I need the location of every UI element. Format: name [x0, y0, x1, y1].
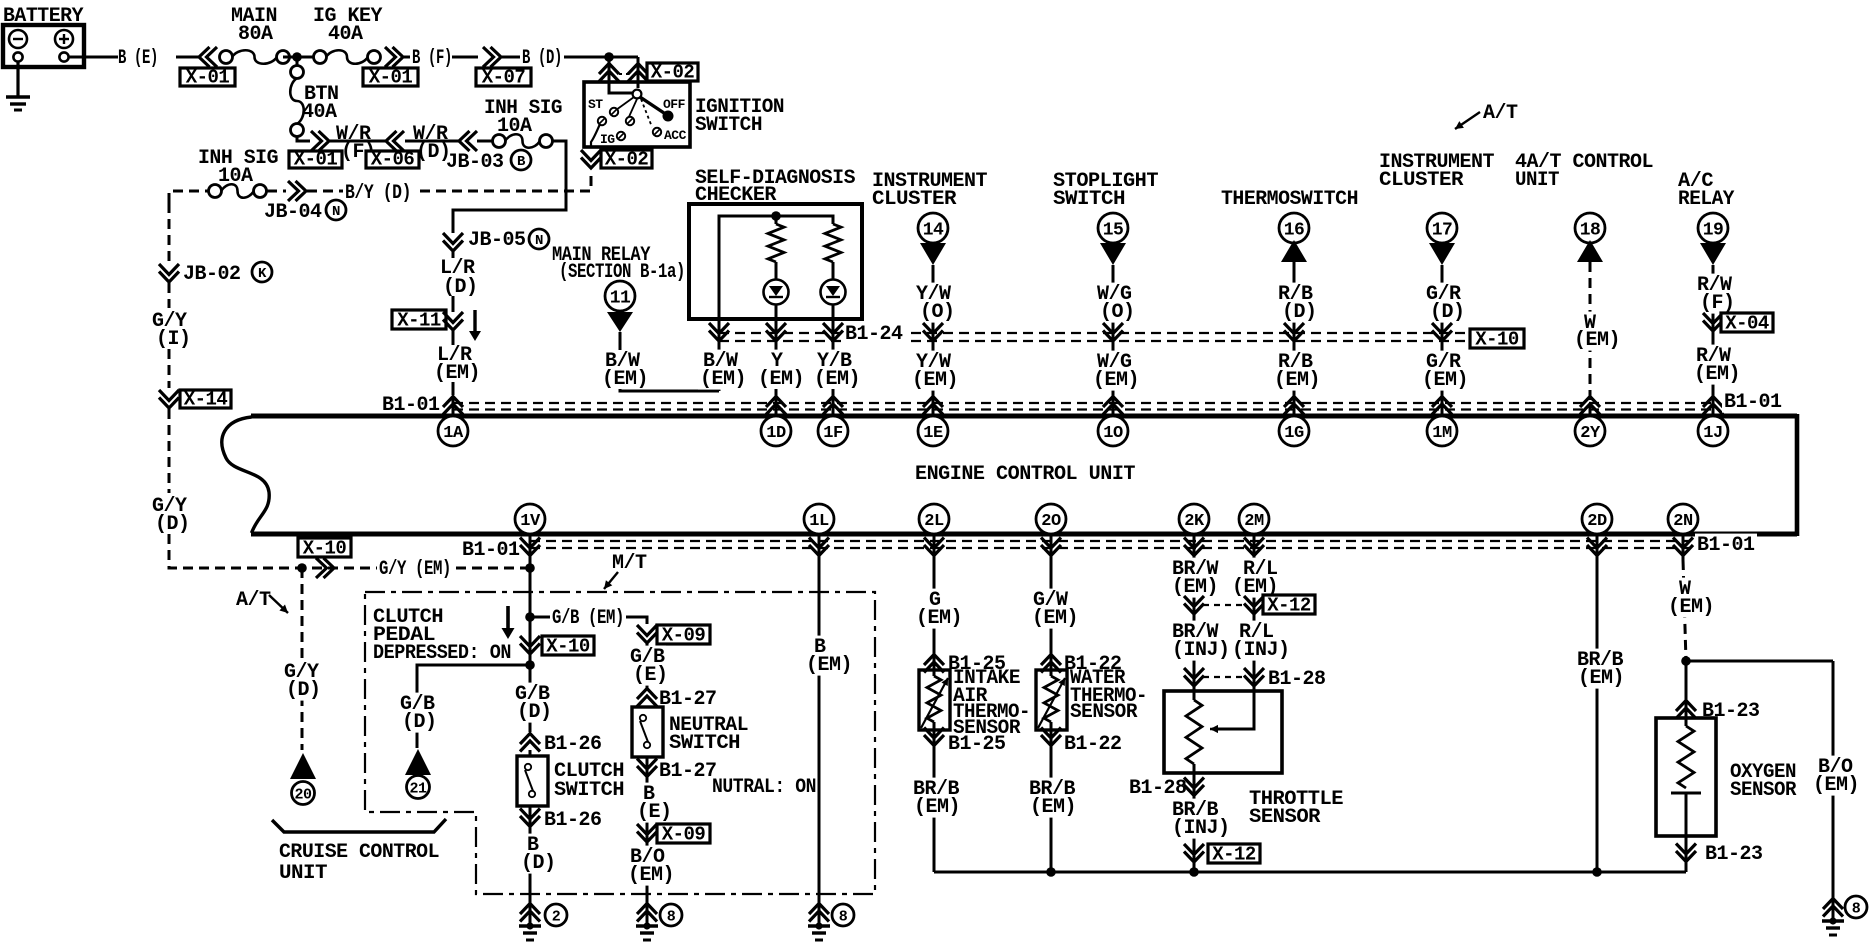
- label THROTTLE SENSOR: [1249, 788, 1344, 829]
- svg-text:(EM): (EM): [1172, 576, 1218, 599]
- M/T region box: [365, 592, 875, 894]
- label G/B (EM): [550, 607, 626, 629]
- label BR/B (EM) 2O: [1027, 778, 1077, 800]
- neutral switch: [632, 707, 663, 757]
- wire 1L down: [818, 536, 821, 905]
- label BR/B (EM) 2L: [911, 778, 961, 800]
- svg-text:THERMOSWITCH: THERMOSWITCH: [1221, 188, 1358, 211]
- ignition contact ACC: [653, 128, 661, 136]
- svg-text:(EM): (EM): [1093, 369, 1139, 392]
- svg-text:(D): (D): [155, 513, 190, 536]
- wire relay to junction: [620, 389, 719, 391]
- wire junction into switch: [609, 57, 633, 93]
- label B/W (EM) checker: [701, 350, 739, 372]
- wire to ECU pin 1A: [452, 382, 455, 395]
- svg-text:1F: 1F: [823, 424, 843, 443]
- wire BTN fuse to W/R row: [297, 136, 310, 141]
- svg-text:B1-26: B1-26: [544, 733, 602, 756]
- label INTAKE AIR THERMO-SENSOR: [953, 667, 1030, 740]
- pin 1J: [1698, 416, 1728, 446]
- terminal N circled: [326, 200, 346, 220]
- svg-text:(EM): (EM): [1574, 329, 1620, 352]
- wire checker internal top: [719, 216, 833, 319]
- wire battery positive feed: [68, 56, 118, 59]
- wire 19 down: [1712, 265, 1715, 414]
- label G/R (D): [1424, 283, 1462, 305]
- connector chevron B1-27 bottom: [637, 759, 657, 777]
- wire 17 down: [1441, 265, 1444, 414]
- svg-text:(EM): (EM): [628, 864, 674, 887]
- label G/B (D) 21: [398, 693, 436, 715]
- svg-text:(EM): (EM): [1030, 796, 1076, 819]
- svg-text:JB-05: JB-05: [468, 229, 526, 252]
- label G (EM): [927, 589, 943, 611]
- svg-text:G/B (EM): G/B (EM): [552, 607, 624, 630]
- label Y (EM): [769, 350, 785, 372]
- svg-text:X-14: X-14: [184, 389, 228, 411]
- connector chevron B1-24 Y/B: [823, 323, 843, 341]
- wire second into switch: [637, 57, 640, 88]
- label A/T upper with arrow: [1455, 102, 1518, 129]
- label R/W (EM): [1694, 345, 1732, 367]
- svg-text:2N: 2N: [1673, 512, 1693, 531]
- connector chevron B1-01 2Y: [1580, 397, 1600, 415]
- svg-text:B1-25: B1-25: [948, 733, 1006, 756]
- junction node 2D bus: [1592, 867, 1602, 877]
- connector box X-12 top: [1263, 595, 1315, 614]
- connector box X-11: [392, 310, 446, 329]
- svg-text:(EM): (EM): [1694, 363, 1740, 386]
- pin 1L: [804, 504, 834, 534]
- ground battery: [6, 97, 30, 110]
- wire 2N dashed down: [1682, 536, 1685, 560]
- arrow main relay: [607, 312, 633, 332]
- connector chevron X-09 bottom: [637, 824, 657, 842]
- wire sensor ground bus: [934, 871, 1686, 874]
- svg-text:8: 8: [839, 908, 848, 925]
- svg-text:(D): (D): [402, 711, 437, 734]
- arrow 17: [1429, 243, 1455, 265]
- thermistor intake: [927, 676, 941, 722]
- thermistor arrow water: [1038, 678, 1065, 728]
- connector chevron B1-01 1V: [520, 538, 540, 556]
- svg-text:17: 17: [1432, 220, 1453, 240]
- wire 2D down: [1596, 536, 1599, 872]
- label B1-01 bottom right: [1695, 534, 1757, 556]
- pin 1V: [515, 504, 545, 534]
- svg-text:K: K: [258, 266, 267, 282]
- connector chevron X-09 top: [637, 625, 657, 643]
- arrow 15: [1100, 243, 1126, 265]
- fuse MAIN 80A: [220, 51, 233, 64]
- svg-text:2O: 2O: [1041, 512, 1061, 531]
- connector chevron B1-23 bottom: [1676, 844, 1696, 862]
- svg-text:X-11: X-11: [397, 310, 441, 332]
- svg-text:X-01: X-01: [369, 67, 413, 89]
- wire 2L below sensor: [933, 722, 936, 872]
- svg-text:NUTRAL: ON: NUTRAL: ON: [712, 776, 816, 799]
- svg-text:(EM): (EM): [806, 654, 852, 677]
- connector chevron B1-01 1G: [1284, 397, 1304, 415]
- wire G/B (EM) to X-09: [530, 617, 647, 624]
- connector box X-02 top: [647, 63, 698, 81]
- label W (EM) 18: [1582, 312, 1598, 334]
- node 16 thermoswitch: [1279, 213, 1309, 243]
- svg-text:UNIT: UNIT: [279, 862, 328, 885]
- svg-text:X-10: X-10: [546, 636, 590, 658]
- svg-text:(D): (D): [286, 679, 321, 702]
- pin 2D: [1582, 504, 1612, 534]
- connector chevron B1-01 1E: [923, 397, 943, 415]
- svg-text:ENGINE CONTROL UNIT: ENGINE CONTROL UNIT: [915, 463, 1135, 486]
- label CRUISE CONTROL UNIT: [279, 841, 439, 885]
- svg-text:B1-26: B1-26: [544, 809, 602, 832]
- svg-text:(EM): (EM): [1813, 774, 1859, 797]
- svg-text:X-06: X-06: [371, 149, 415, 171]
- connector chevron B1-01 1D: [766, 397, 786, 415]
- wire MAIN fuse to junction: [283, 56, 318, 59]
- node 15 stoplight switch: [1098, 213, 1128, 243]
- label R/L (EM): [1241, 558, 1279, 580]
- svg-text:1O: 1O: [1103, 424, 1123, 443]
- label G/Y (EM): [377, 558, 453, 580]
- svg-text:JB-03: JB-03: [446, 151, 504, 174]
- label BR/B (EM) 2D: [1575, 649, 1625, 671]
- label BR/B (INJ): [1170, 799, 1220, 821]
- ignition switch rotor: [633, 90, 674, 122]
- svg-text:1L: 1L: [809, 512, 829, 531]
- svg-text:X-12: X-12: [1212, 844, 1256, 866]
- cell oxygen sensor: [1671, 793, 1701, 836]
- wire 15 down: [1112, 265, 1115, 414]
- svg-text:B (F): B (F): [412, 47, 452, 70]
- wire below X-11: [452, 331, 455, 345]
- wire dashed G/Y (EM): [296, 567, 530, 570]
- connector chevron B1-24 17: [1432, 323, 1452, 341]
- label Y/W (EM): [914, 351, 952, 373]
- svg-text:1J: 1J: [1703, 424, 1722, 443]
- resistor oxygen: [1678, 726, 1694, 788]
- label R/L (INJ): [1237, 621, 1275, 643]
- wire 16 down: [1293, 262, 1296, 414]
- label Y/W (O): [914, 283, 952, 305]
- clutch switch CLUTCH: [517, 756, 548, 806]
- pin 2K: [1179, 504, 1209, 534]
- connector chevron X-04: [1703, 313, 1723, 331]
- connector chevron B1-24 16: [1284, 323, 1304, 341]
- fuse BTN 40A: [291, 66, 304, 79]
- wire JB-05 to label: [452, 251, 455, 258]
- connector box X-06: [366, 151, 419, 168]
- potentiometer throttle: [1186, 700, 1202, 764]
- label R/B (D): [1276, 283, 1314, 305]
- thermistor water: [1044, 676, 1058, 722]
- pin 2Y: [1575, 416, 1605, 446]
- svg-text:8: 8: [667, 908, 676, 925]
- svg-text:B1-28: B1-28: [1268, 668, 1326, 691]
- pin 2L: [919, 504, 949, 534]
- pin 1M: [1427, 416, 1457, 446]
- svg-text:X-01: X-01: [294, 149, 338, 171]
- connector chevron X-11: [443, 312, 463, 330]
- svg-text:JB-04: JB-04: [264, 201, 322, 224]
- svg-text:A/T: A/T: [1483, 102, 1518, 125]
- ignition contact ST upper: [610, 108, 618, 116]
- wire resistor to LED left: [775, 262, 778, 280]
- wire 2M into throttle: [1212, 691, 1254, 729]
- connector box X-04: [1721, 313, 1773, 332]
- svg-text:X-01: X-01: [186, 67, 230, 89]
- wire junction down to BTN fuse: [296, 57, 299, 66]
- svg-text:(O): (O): [920, 301, 955, 324]
- connector chevron X-06: [386, 131, 404, 151]
- ground id 2: [545, 904, 567, 926]
- svg-text:A/T: A/T: [236, 589, 271, 612]
- svg-text:(EM): (EM): [914, 796, 960, 819]
- label Y/B (EM): [815, 350, 853, 372]
- connector chevron B1-23 top: [1676, 701, 1696, 719]
- arrow 19: [1700, 243, 1726, 265]
- connector chevron X-12 2K: [1184, 596, 1204, 614]
- pin 2O: [1036, 504, 1066, 534]
- connector chevron X-02 wire2: [628, 64, 648, 82]
- wire 14 down: [932, 265, 935, 414]
- svg-text:2: 2: [552, 908, 561, 925]
- connector chevron X-10 clutch: [520, 636, 540, 654]
- pin 2N: [1668, 504, 1698, 534]
- svg-text:19: 19: [1703, 220, 1724, 240]
- connector box X-01 second: [363, 68, 418, 86]
- connector chevron B1-26 top: [520, 734, 540, 752]
- svg-text:B/Y (D): B/Y (D): [345, 182, 411, 205]
- svg-text:IG: IG: [600, 132, 615, 147]
- svg-text:ACC: ACC: [664, 128, 687, 143]
- label G/R (EM): [1424, 351, 1462, 373]
- wire 2L down: [933, 536, 936, 676]
- fuse INH SIG 10A lower: [209, 185, 222, 198]
- label R/W (F): [1695, 274, 1733, 296]
- arrow small down at X-11: [473, 310, 476, 331]
- label G/B (D) clutch: [513, 683, 551, 705]
- ground B/O: [1823, 899, 1843, 917]
- connector box X-10 left: [298, 538, 351, 557]
- svg-text:(EM): (EM): [434, 362, 480, 385]
- svg-text:SENSOR: SENSOR: [1070, 701, 1137, 724]
- node 19 A/C relay: [1698, 213, 1728, 243]
- wire dashed JB-02 column upper: [168, 203, 171, 262]
- pin 1A: [438, 416, 468, 446]
- label CLUTCH PEDAL DEPRESSED: ON: [373, 606, 511, 665]
- connector chevron B1-01 2M: [1244, 538, 1264, 556]
- arrow 21 up: [405, 749, 431, 775]
- svg-text:X-09: X-09: [662, 824, 706, 846]
- svg-text:X-09: X-09: [662, 625, 706, 647]
- connector chevron JB-05: [443, 233, 463, 251]
- label B1-01 top right: [1722, 391, 1784, 413]
- arrow 16 up: [1281, 240, 1307, 262]
- connector chevron B1-24 14: [923, 323, 943, 341]
- junction node oxygen: [1681, 656, 1691, 666]
- wire 2O down: [1050, 536, 1053, 676]
- resistor checker left: [768, 224, 784, 262]
- wire B (F) to X-07: [452, 56, 478, 59]
- connector chevron B1-24 Y: [766, 323, 786, 341]
- label B1-24: [843, 323, 905, 345]
- connector box X-01: [180, 68, 235, 86]
- svg-text:21: 21: [409, 780, 427, 797]
- connector chevron B1-01 2K: [1184, 538, 1204, 556]
- label B (E): [641, 783, 657, 805]
- pin 1O: [1098, 416, 1128, 446]
- fuse IG KEY 40A: [314, 51, 327, 64]
- bus B1-24 dashed pair: [719, 333, 1470, 341]
- wire W/R segment: [330, 140, 386, 143]
- svg-text:2M: 2M: [1244, 512, 1264, 531]
- label B/O (EM): [1816, 756, 1854, 778]
- svg-text:SWITCH: SWITCH: [669, 732, 740, 755]
- svg-text:DEPRESSED: ON: DEPRESSED: ON: [373, 642, 511, 665]
- label G/Y (D) 20: [282, 661, 320, 683]
- self-diagnosis checker box: [689, 204, 862, 319]
- wire INH SIG to JB-05 corner: [453, 141, 566, 233]
- connector chevron X-01 left: [199, 47, 217, 67]
- wire dashed below JB-02: [168, 283, 171, 308]
- connector chevron B1-01 1L: [809, 538, 829, 556]
- node 18 4A/T control unit: [1575, 213, 1605, 243]
- svg-text:X-10: X-10: [303, 538, 347, 560]
- wire to X-11: [452, 296, 455, 312]
- svg-text:B1-22: B1-22: [1064, 733, 1122, 756]
- arrow 20 up: [290, 753, 316, 779]
- wire oxygen to B/O column: [1686, 660, 1833, 663]
- pin 1F: [818, 416, 848, 446]
- ground clutch switch: [520, 904, 540, 922]
- svg-text:N: N: [332, 204, 340, 220]
- svg-text:(EM): (EM): [916, 607, 962, 630]
- label G/B (E): [628, 646, 666, 668]
- junction node 1V G/Y: [525, 563, 535, 573]
- ground neutral switch: [637, 904, 657, 922]
- label WATER THERMO-SENSOR: [1070, 667, 1147, 724]
- terminal N circled second: [529, 229, 549, 249]
- svg-text:1M: 1M: [1432, 424, 1452, 443]
- wire dashed A/T branch: [301, 568, 304, 750]
- wire dashed B/Y (D): [307, 190, 343, 193]
- svg-text:B1-28: B1-28: [1129, 777, 1187, 800]
- svg-text:B1-01: B1-01: [1724, 391, 1782, 414]
- resistor checker right: [825, 224, 841, 262]
- svg-text:OFF: OFF: [663, 97, 686, 112]
- junction node G/B (EM): [525, 612, 535, 622]
- connector chevron X-01 right: [385, 47, 403, 67]
- wire ST contact exit: [591, 124, 600, 147]
- connector chevron B1-01 1M: [1432, 397, 1452, 415]
- connector chevron JB-03: [459, 131, 477, 151]
- wire to INH SIG fuse: [477, 140, 492, 143]
- connector chevron B1-01 1F: [823, 397, 843, 415]
- ignition switch contact lines: [616, 97, 652, 127]
- label W/G (O): [1095, 283, 1133, 305]
- svg-text:(I): (I): [156, 328, 191, 351]
- svg-text:18: 18: [1580, 220, 1601, 240]
- svg-text:B1-01: B1-01: [462, 539, 520, 562]
- wire checker B/W down: [718, 319, 721, 391]
- svg-text:1G: 1G: [1284, 424, 1304, 443]
- svg-text:2L: 2L: [924, 512, 944, 531]
- connector chevron B1-01 2L: [924, 538, 944, 556]
- label W/G (EM): [1095, 351, 1133, 373]
- LED left: [764, 280, 789, 305]
- label M/T with arrow: [604, 552, 647, 589]
- connector chevron B1-25 top: [924, 655, 944, 673]
- wire main relay B/W: [619, 332, 622, 350]
- wire battery negative to ground: [16, 61, 19, 97]
- wire below neutral switch: [646, 757, 649, 905]
- wire 2K below throttle sensor: [1193, 764, 1196, 872]
- connector chevron G/Y (EM): [316, 558, 334, 578]
- wire Y to pin 1D: [775, 389, 778, 414]
- wire Y/B to pin 1F: [832, 389, 835, 414]
- svg-text:40A: 40A: [328, 23, 363, 46]
- svg-text:X-04: X-04: [1725, 313, 1769, 335]
- bus B1-01 top dashed pair: [453, 403, 1713, 410]
- oxygen sensor box: [1656, 718, 1716, 836]
- svg-text:X-02: X-02: [651, 62, 695, 84]
- wire checker mid drop: [775, 216, 778, 224]
- connector chevron B1-28 bottom: [1184, 778, 1204, 796]
- svg-text:B1-24: B1-24: [845, 323, 903, 346]
- wire W/R second segment: [405, 140, 459, 143]
- wire 2M down: [1253, 536, 1256, 691]
- wire X-09 to neutral switch: [646, 643, 649, 690]
- wire 2O below sensor: [1050, 722, 1053, 872]
- label BR/W (INJ): [1170, 621, 1220, 643]
- svg-text:B1-27: B1-27: [659, 688, 717, 711]
- svg-text:16: 16: [1284, 220, 1305, 240]
- connector box X-09 top: [657, 625, 710, 644]
- node 17 instrument cluster: [1427, 213, 1457, 243]
- wire 2K down: [1193, 536, 1196, 700]
- wire below clutch switch: [529, 806, 532, 905]
- wire LED right exit: [832, 304, 835, 352]
- terminal B circled: [511, 150, 531, 170]
- svg-text:B: B: [517, 154, 526, 170]
- connector chevron B1-22 bottom: [1041, 728, 1061, 746]
- svg-text:15: 15: [1103, 220, 1124, 240]
- ignition contact IG: [617, 132, 625, 140]
- svg-text:(EM): (EM): [700, 368, 746, 391]
- svg-text:(EM): (EM): [1578, 667, 1624, 690]
- wire into clutch switch: [529, 750, 532, 757]
- svg-text:(EM): (EM): [758, 368, 804, 391]
- svg-text:(EM): (EM): [1668, 596, 1714, 619]
- label B/O (EM) neutral: [628, 846, 666, 868]
- wire into oxygen sensor: [1685, 661, 1688, 726]
- connector box X-02 bottom: [601, 150, 652, 168]
- connector chevron JB-02: [159, 264, 179, 282]
- connector chevron B1-26 bottom: [520, 809, 540, 827]
- svg-text:B (D): B (D): [522, 47, 562, 70]
- svg-text:(EM): (EM): [912, 369, 958, 392]
- svg-text:CRUISE CONTROL: CRUISE CONTROL: [279, 841, 439, 864]
- svg-text:X-10: X-10: [1475, 329, 1519, 351]
- junction node ignition feed: [604, 52, 614, 62]
- svg-text:(EM): (EM): [1032, 607, 1078, 630]
- junction node A/T branch: [297, 563, 307, 573]
- connector chevron B1-24 B/W: [709, 323, 729, 341]
- svg-text:1V: 1V: [520, 512, 541, 531]
- connector chevron X-02 bottom: [581, 150, 601, 168]
